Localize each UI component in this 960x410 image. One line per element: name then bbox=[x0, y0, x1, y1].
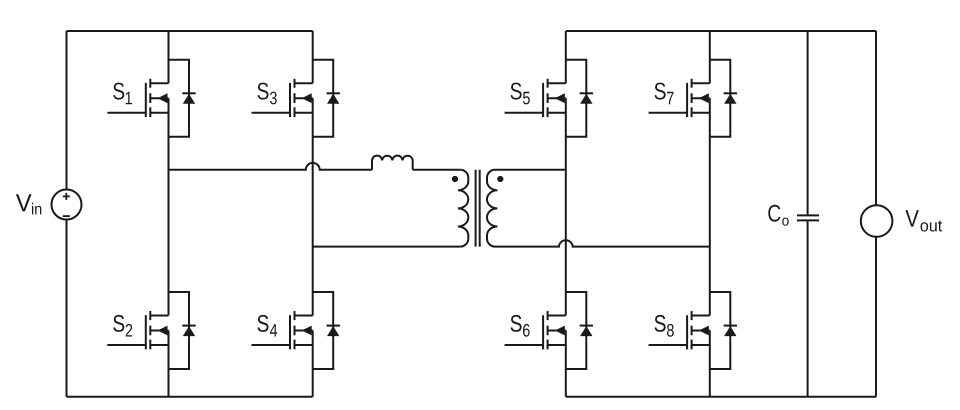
label S3 bbox=[257, 83, 268, 100]
transistor S3 body stub with arrow bbox=[295, 97, 313, 99]
transistor S5 gate bar bbox=[542, 83, 544, 117]
label S8 bbox=[655, 315, 666, 332]
wire S7/S8 leg vertical bbox=[709, 31, 711, 397]
transistor S4 source stub bbox=[295, 344, 313, 346]
transistor S2 gate lead bbox=[107, 344, 146, 346]
label S6 bbox=[511, 315, 522, 332]
transistor S7 gate lead bbox=[649, 112, 688, 114]
transistor S4 gate bar bbox=[289, 315, 291, 349]
body diode D6 branch wire bbox=[566, 292, 587, 369]
wire S3/S4 leg vertical bbox=[312, 31, 314, 397]
source Vin minus sign bbox=[63, 215, 70, 217]
transistor S1 channel dashes bbox=[149, 79, 151, 117]
transistor S2 gate bar bbox=[145, 315, 147, 349]
body diode D4 symbol bbox=[327, 325, 340, 327]
transistor S6 channel dashes bbox=[547, 311, 549, 349]
transistor S2 drain stub bbox=[150, 315, 168, 317]
transistor S4 drain stub bbox=[295, 315, 313, 317]
label S7 bbox=[655, 83, 666, 100]
transistor S3 channel dashes bbox=[294, 79, 296, 117]
transistor S6 gate lead bbox=[505, 344, 543, 346]
transformer T1 core bbox=[476, 170, 480, 247]
source Vin circle bbox=[52, 190, 82, 220]
body diode D4 branch wire bbox=[313, 292, 334, 369]
transistor S4 gate lead bbox=[252, 344, 291, 346]
transistor S5 drain stub bbox=[548, 82, 566, 84]
transistor S5 channel dashes bbox=[547, 79, 549, 117]
transistor S6 gate bar bbox=[542, 315, 544, 349]
transistor S1 drain stub bbox=[150, 82, 168, 84]
wire bottom bus right bridge bbox=[566, 396, 876, 398]
source Vout circle bbox=[861, 205, 893, 237]
label S5 bbox=[511, 83, 522, 100]
body diode D7 symbol bbox=[724, 92, 737, 94]
wire inductor to transformer primary bbox=[413, 169, 461, 171]
body diode D5 symbol bbox=[580, 92, 593, 94]
body diode D8 branch wire bbox=[710, 292, 731, 369]
label Vout bbox=[905, 210, 918, 227]
capacitor Co plates bbox=[797, 215, 819, 220]
inductor Lk series inductor bbox=[372, 156, 413, 170]
wire primary bottom to phase node B bbox=[313, 246, 461, 248]
transistor S7 drain stub bbox=[692, 82, 710, 84]
body diode D3 symbol bbox=[327, 92, 340, 94]
transistor S3 drain stub bbox=[295, 82, 313, 84]
transistor S8 channel dashes bbox=[691, 311, 693, 349]
wire secondary top to right phase node bbox=[495, 169, 566, 171]
transistor S1 gate lead bbox=[107, 112, 146, 114]
transistor S7 body stub with arrow bbox=[692, 97, 710, 99]
transistor S1 source stub bbox=[150, 112, 168, 114]
wire S5/S6 leg vertical bbox=[565, 31, 567, 397]
transistor S3 source stub bbox=[295, 112, 313, 114]
transistor S6 drain stub bbox=[548, 315, 566, 317]
body diode D7 branch wire bbox=[710, 60, 731, 137]
transistor S2 body stub with arrow bbox=[150, 330, 168, 332]
wire S1/S2 leg vertical bbox=[168, 31, 170, 397]
body diode D2 branch wire bbox=[169, 292, 190, 369]
body diode D2 symbol bbox=[182, 325, 195, 327]
transistor S8 source stub bbox=[692, 344, 710, 346]
transistor S5 source stub bbox=[548, 112, 566, 114]
wire phase node A with hop over S3/S4 leg bbox=[169, 163, 373, 170]
source Vin plus sign bbox=[63, 193, 70, 200]
transistor S1 gate bar bbox=[145, 83, 147, 117]
body diode D3 branch wire bbox=[313, 60, 334, 137]
transistor S8 gate bar bbox=[686, 315, 688, 349]
transistor S7 gate bar bbox=[686, 83, 688, 117]
transistor S1 body stub with arrow bbox=[150, 97, 168, 99]
transistor S4 body stub with arrow bbox=[295, 330, 313, 332]
transformer T1 primary polarity dot bbox=[452, 176, 458, 182]
body diode D1 branch wire bbox=[169, 60, 190, 137]
wire output capacitor branch bbox=[807, 31, 809, 397]
label Co bbox=[768, 205, 780, 222]
body diode D8 symbol bbox=[724, 325, 737, 327]
label S2 bbox=[113, 315, 124, 332]
transistor S2 channel dashes bbox=[149, 311, 151, 349]
transistor S7 channel dashes bbox=[691, 79, 693, 117]
transistor S3 gate bar bbox=[289, 83, 291, 117]
wire top bus left bridge bbox=[67, 30, 313, 32]
wire bottom bus left bridge bbox=[67, 396, 313, 398]
body diode D6 symbol bbox=[580, 325, 593, 327]
body diode D5 branch wire bbox=[566, 60, 587, 137]
transistor S6 body stub with arrow bbox=[548, 330, 566, 332]
body diode D1 symbol bbox=[182, 92, 195, 94]
wire left input rail bbox=[66, 31, 68, 397]
label S4 bbox=[257, 315, 268, 332]
label Vin bbox=[16, 194, 32, 211]
wire secondary bottom with hop over S5/S6 leg to S7/S8 phase node bbox=[495, 240, 710, 246]
transistor S7 source stub bbox=[692, 112, 710, 114]
transistor S8 body stub with arrow bbox=[692, 330, 710, 332]
transformer T1 secondary winding bbox=[487, 170, 497, 247]
transformer T1 primary winding bbox=[458, 170, 468, 247]
transistor S5 gate lead bbox=[505, 112, 543, 114]
transistor S3 gate lead bbox=[252, 112, 291, 114]
wire right output rail bbox=[875, 31, 877, 397]
transistor S4 channel dashes bbox=[294, 311, 296, 349]
transistor S8 gate lead bbox=[649, 344, 688, 346]
wire top bus right bridge bbox=[566, 30, 876, 32]
label S1 bbox=[113, 83, 124, 100]
transistor S2 source stub bbox=[150, 344, 168, 346]
transformer T1 secondary polarity dot bbox=[497, 176, 503, 182]
transistor S6 source stub bbox=[548, 344, 566, 346]
transistor S8 drain stub bbox=[692, 315, 710, 317]
transistor S5 body stub with arrow bbox=[548, 97, 566, 99]
